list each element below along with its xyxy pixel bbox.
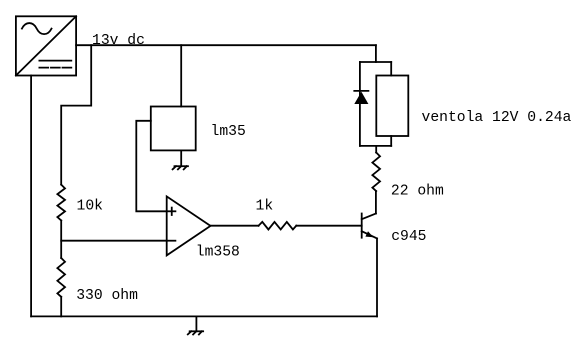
diode D1 (flyback across fan) (354, 91, 368, 104)
wire: fan top stem (390, 62, 392, 76)
wire: fan bottom stem (390, 136, 392, 146)
svg-text:lm358: lm358 (196, 244, 240, 260)
wire: between 10k and 330 ohm (60, 221, 62, 259)
wire: supply negative output down left side (30, 76, 32, 317)
resistor R4 22 ohm (372, 153, 380, 192)
svg-text:ventola 12V 0.24a: ventola 12V 0.24a (422, 110, 572, 126)
wire: top tie bar of parallel branch (360, 61, 391, 63)
wire: junction to op-amp inverting input (61, 240, 167, 242)
wire: bottom ground rail (31, 315, 377, 317)
svg-text:10k: 10k (77, 198, 104, 214)
temperature sensor U2 lm35 (151, 107, 196, 151)
svg-text:1k: 1k (256, 199, 274, 215)
wire: bottom tie bar of parallel branch (360, 145, 391, 147)
wire: diode branch left vertical (359, 62, 361, 146)
wire: rail into fan/diode parallel branch (375, 45, 377, 62)
fan M1 ventola (376, 76, 408, 137)
wire: 13v dc rail from supply to fan branch (76, 44, 376, 46)
svg-text:13v dc: 13v dc (92, 33, 145, 49)
wire: emitter down to ground rail (376, 238, 378, 316)
resistor R3 1k (259, 222, 297, 230)
transistor Q1 c945 (362, 214, 377, 239)
resistor R2 330 ohm (57, 258, 65, 297)
ground under lm35 (173, 166, 188, 169)
wire: branch down to 22 ohm (375, 146, 377, 153)
svg-text:330 ohm: 330 ohm (76, 288, 138, 304)
svg-text:22 ohm: 22 ohm (391, 184, 444, 200)
wire: rail down to lm35 Vcc pin (180, 45, 182, 106)
wire: 1k to transistor base (296, 225, 361, 227)
resistor R1 10k (57, 185, 65, 221)
wire: ground stem on bottom rail (195, 316, 197, 331)
wire: 330 ohm to ground rail (60, 297, 62, 317)
ground on bottom rail (188, 331, 203, 334)
svg-text:lm35: lm35 (211, 124, 246, 140)
wire: op-amp output to 1k (211, 225, 259, 227)
power supply PS1 (AC/DC converter) (16, 16, 76, 75)
wire: drop from rail down-left to 10k resistor (61, 45, 91, 184)
svg-text:c945: c945 (391, 229, 426, 245)
wire: collector up to 22 ohm (375, 191, 377, 213)
wire: lm35 output to op-amp non-inverting input (136, 121, 166, 212)
op-amp U1 lm358 (167, 196, 211, 255)
wire: lm35 ground pin (180, 150, 182, 166)
